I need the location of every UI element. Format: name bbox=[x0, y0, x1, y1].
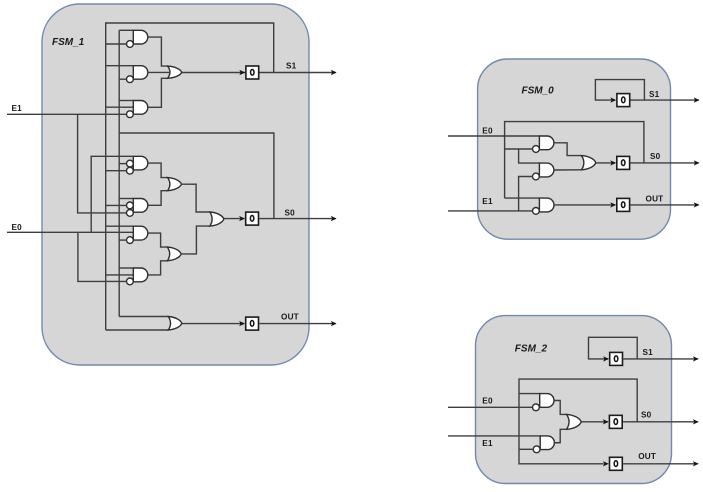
wire: S0 feedback from S0 net up and across to second bus bbox=[119, 133, 274, 219]
wire: S0 output net bbox=[259, 218, 336, 220]
svg-text:S1: S1 bbox=[643, 348, 654, 357]
wire: H2 output to OR gate X2 bottom input bbox=[554, 429, 566, 442]
inverter bubble on A3 lower input bbox=[126, 111, 133, 118]
wire: O4 output to flip-flop FF2 bbox=[224, 218, 245, 220]
svg-text:E1: E1 bbox=[482, 197, 493, 206]
AND gate H2 of FSM_2 bbox=[540, 436, 554, 450]
wire: G3 output to FSM_0 OUT flip-flop bbox=[554, 204, 615, 206]
wire: G1 output to OR gate X1 top input bbox=[554, 143, 582, 156]
svg-text:OUT: OUT bbox=[646, 194, 664, 203]
wire: OUT output net bbox=[259, 323, 336, 325]
inverter bubble on G2 lower input bbox=[533, 173, 540, 180]
AND gate M1 bbox=[133, 156, 147, 170]
wire: FSM_0 S0 feedback top line bbox=[505, 122, 644, 199]
wire: S0 feedback to gate H1 top input bbox=[519, 393, 540, 395]
wire: E0 tap up to gate M1 top input bbox=[91, 156, 133, 232]
OR gate O1 bbox=[168, 66, 182, 78]
wire: S1 bus to gate M2 first inverted input bbox=[106, 204, 127, 206]
arrowhead into FF2 bbox=[239, 216, 245, 221]
wire: X1 output to FSM_0 S0 flip-flop bbox=[596, 162, 616, 164]
svg-text:S1: S1 bbox=[649, 90, 660, 99]
wire: O1 output to flip-flop FF1 bbox=[182, 72, 245, 74]
svg-text:S0: S0 bbox=[285, 209, 296, 218]
wire: E1 up to G2 inverted input bbox=[519, 177, 533, 211]
arrowhead into FF1 bbox=[239, 70, 245, 75]
inverter bubble on M2 middle input bbox=[126, 202, 133, 209]
wire: S1 feedback from S1 net up and across to left bus bbox=[106, 23, 274, 330]
AND gate G1 of FSM_0 bbox=[539, 136, 553, 150]
D flip-flop FF2 (state bit S0) bbox=[246, 212, 259, 225]
wire: M4 output to OR gate O3 bottom input bbox=[148, 261, 168, 275]
wire: FSM_0 input E1 to gate G3 inverted input bbox=[448, 210, 533, 212]
wire: S0 bus to gate M4 top input bbox=[119, 267, 133, 269]
wire: FSM_2 input E1 to gate H2 top input bbox=[448, 435, 540, 437]
inverter bubble on H2 lower input bbox=[533, 446, 540, 453]
wire: FSM_0 S1 feedback loop bbox=[595, 80, 644, 101]
wire: S0 bus to gate M1 first inverted input bbox=[119, 163, 126, 165]
arrowhead into FSM_0 OUT flip-flop bbox=[610, 202, 616, 207]
wire: S0 bus to gate M2 top input bbox=[119, 198, 133, 200]
wire: S0 feedback to H2 inverted input bbox=[519, 448, 533, 450]
arrowhead of FSM_0 S0 output bbox=[694, 160, 700, 165]
wire: FSM_0 S0 output net bbox=[630, 162, 698, 164]
svg-text:S0: S0 bbox=[650, 152, 661, 161]
svg-text:E0: E0 bbox=[12, 223, 23, 232]
inverter bubble on G3 lower input bbox=[533, 208, 540, 215]
svg-text:OUT: OUT bbox=[281, 313, 299, 322]
wire: E0 tap down to gate M4 inverted input bbox=[78, 232, 127, 281]
wire: S1 bus to gate M1 second inverted input bbox=[106, 170, 127, 172]
wire: FSM_0 S1 output net bbox=[631, 99, 699, 101]
wire: FSM_2 OUT output net bbox=[623, 463, 698, 465]
D flip-flop of FSM_2 state bit S0 bbox=[609, 415, 622, 428]
wire: FSM_2 input E0 to gate H1 inverted input bbox=[448, 406, 532, 408]
D flip-flop FF1 (state bit S1) bbox=[246, 66, 259, 79]
inverter bubble on A1 lower input bbox=[126, 41, 133, 48]
arrowhead into FSM_2 S1 flip-flop bbox=[603, 356, 609, 361]
arrowhead of S0 output bbox=[331, 216, 337, 221]
wire: S0 feedback corner to gate G3 top input bbox=[505, 197, 540, 199]
wire: FSM_0 OUT output net bbox=[630, 204, 698, 206]
wire: X2 output to FSM_2 S0 flip-flop bbox=[581, 421, 608, 423]
D flip-flop of FSM_0 output OUT bbox=[617, 198, 630, 211]
OR gate O2 bbox=[168, 178, 182, 191]
OR gate X1 of FSM_0 bbox=[582, 156, 596, 170]
arrowhead of OUT output bbox=[331, 321, 337, 326]
AND gate A2 bbox=[133, 66, 148, 80]
wire: S1 bus to gate M3 top input bbox=[106, 225, 134, 227]
wire: S0 bus corner to OR gate O5 top input bbox=[119, 316, 168, 318]
arrowhead into FSM_2 S0 flip-flop bbox=[603, 419, 609, 424]
wire: H1 output to OR gate X2 top input bbox=[554, 401, 567, 415]
AND gate H1 of FSM_2 bbox=[540, 394, 554, 408]
AND gate A3 bbox=[133, 101, 148, 115]
wire: S0 bus to gate A1 top input bbox=[119, 29, 133, 31]
wire: S1 bus to gate A2 top input bbox=[106, 65, 134, 67]
D flip-flop of FSM_2 output OUT bbox=[610, 457, 623, 470]
inverter bubble on A2 lower input bbox=[126, 76, 133, 83]
inverter bubble on M1 lower input bbox=[126, 167, 133, 174]
arrowhead into FSM_0 S0 flip-flop bbox=[610, 160, 616, 165]
FSM_0 block body bbox=[478, 59, 671, 239]
wire: FSM_2 S1 feedback loop bbox=[589, 337, 638, 359]
D flip-flop of FSM_0 state bit S0 bbox=[617, 156, 630, 169]
wire: S0 feedback vertical bus bbox=[118, 30, 120, 316]
OR gate O4 bbox=[210, 212, 224, 226]
OR gate X2 of FSM_2 bbox=[567, 414, 582, 429]
AND gate M2 bbox=[133, 199, 148, 213]
AND gate M3 bbox=[133, 226, 148, 240]
OR gate O5 bbox=[168, 317, 182, 331]
inverter bubble on H1 lower input bbox=[533, 404, 540, 411]
svg-text:E0: E0 bbox=[482, 126, 493, 135]
svg-text:FSM_0: FSM_0 bbox=[522, 86, 555, 97]
svg-text:E0: E0 bbox=[482, 396, 493, 405]
wire: O3 output to OR gate O4 bottom input bbox=[181, 226, 210, 254]
wire: G1 bubble net down to gate G2 top input bbox=[519, 149, 540, 163]
arrowhead into FF3 bbox=[239, 321, 245, 326]
inverter bubble on M4 lower input bbox=[126, 278, 133, 285]
inverter bubble on M1 middle input bbox=[126, 160, 133, 167]
wire: M3 output to OR gate O3 top input bbox=[148, 233, 168, 247]
wire: input E0 into block to gate M3 middle input bbox=[7, 231, 133, 233]
wire: S1 bus to gate A1 inverted input bbox=[106, 43, 127, 45]
wire: S1 bus corner to OR gate O5 bottom input bbox=[106, 329, 169, 331]
OR gate O3 bbox=[167, 247, 181, 261]
AND gate A1 bbox=[133, 30, 148, 44]
wire: A2 output to OR gate O1 middle input bbox=[148, 71, 170, 73]
AND gate G3 of FSM_0 bbox=[539, 198, 554, 212]
wire: E1 tap down to gate M2 inverted input bbox=[78, 114, 127, 213]
arrowhead into FSM_2 OUT flip-flop bbox=[603, 461, 609, 466]
AND gate M4 bbox=[133, 268, 147, 282]
wire: S0 bus to gate M3 inverted input bbox=[119, 239, 126, 241]
wire: A1 output to OR gate O1 top input bbox=[148, 37, 168, 66]
arrowhead of FSM_2 S0 output bbox=[693, 419, 699, 424]
svg-text:S0: S0 bbox=[641, 411, 652, 420]
wire: O5 output to flip-flop FF3 bbox=[182, 323, 244, 325]
wire: S0 feedback to G1 inverted input bbox=[505, 148, 533, 150]
AND gate G2 of FSM_0 bbox=[539, 163, 553, 177]
wire: FSM_0 input E0 to gate G1 top input bbox=[448, 135, 539, 137]
D flip-flop FF3 (output OUT) bbox=[246, 317, 259, 330]
arrowhead of FSM_2 OUT output bbox=[693, 461, 699, 466]
svg-text:FSM_2: FSM_2 bbox=[515, 344, 548, 355]
wire: S1 bus to gate A3 middle input bbox=[106, 106, 134, 108]
FSM_2 block body bbox=[476, 316, 672, 484]
FSM_1 block body bbox=[42, 4, 309, 365]
arrowhead of FSM_2 S1 output bbox=[693, 356, 699, 361]
wire: O2 output to OR gate O4 top input bbox=[182, 184, 210, 212]
D flip-flop of FSM_0 state bit S1 bbox=[617, 94, 630, 107]
wire: S0 bus to gate A2 inverted input bbox=[119, 78, 126, 80]
wire: G2 output to OR gate X1 bottom input bbox=[554, 169, 582, 171]
arrowhead of FSM_0 S1 output bbox=[694, 97, 700, 102]
wire: M2 output to OR gate O2 bottom input bbox=[148, 191, 168, 206]
wire: S1 output net bbox=[260, 72, 336, 74]
inverter bubble on M3 lower input bbox=[126, 237, 133, 244]
D flip-flop of FSM_2 state bit S1 bbox=[610, 352, 623, 365]
inverter bubble on G1 lower input bbox=[533, 146, 540, 153]
wire: S1 bus to gate M4 middle input bbox=[106, 274, 134, 276]
svg-text:S1: S1 bbox=[286, 61, 297, 70]
arrowhead of S1 output bbox=[331, 70, 337, 75]
wire: S0 bus to gate A3 top input bbox=[119, 100, 133, 102]
svg-text:OUT: OUT bbox=[638, 452, 656, 461]
inverter bubble on M2 lower input bbox=[126, 210, 133, 217]
svg-text:E1: E1 bbox=[482, 439, 493, 448]
wire: A3 output to OR gate O1 bottom input bbox=[148, 78, 168, 107]
wire: FSM_2 S0 feedback top line and left bus bbox=[519, 379, 637, 464]
wire: FSM_2 S0 output net bbox=[623, 421, 698, 423]
arrowhead of FSM_0 OUT output bbox=[694, 202, 700, 207]
svg-text:FSM_1: FSM_1 bbox=[52, 37, 85, 48]
wire: M1 output to OR gate O2 top input bbox=[148, 163, 168, 178]
arrowhead into FSM_0 S1 flip-flop bbox=[610, 97, 616, 102]
svg-text:E1: E1 bbox=[12, 104, 23, 113]
wire: FSM_2 S1 output net bbox=[623, 358, 698, 360]
wire: input E1 into block to gate A3 inverted input bbox=[7, 113, 127, 115]
